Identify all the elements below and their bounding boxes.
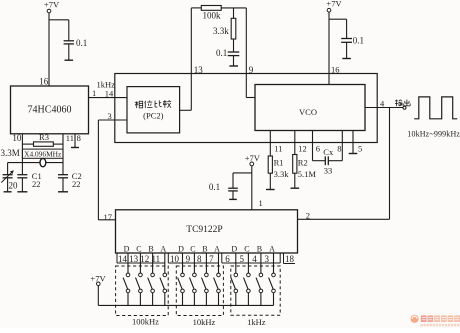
svg-text:R2: R2 bbox=[298, 157, 308, 167]
svg-text:14: 14 bbox=[118, 254, 128, 264]
svg-text:TC9122P: TC9122P bbox=[186, 225, 222, 235]
svg-text:6: 6 bbox=[316, 143, 320, 153]
svg-text:5: 5 bbox=[240, 254, 245, 264]
svg-text:0.1: 0.1 bbox=[209, 182, 220, 192]
svg-text:13: 13 bbox=[129, 254, 139, 264]
svg-text:10kHz~999kHz: 10kHz~999kHz bbox=[407, 129, 460, 138]
svg-text:22: 22 bbox=[72, 179, 81, 189]
svg-text:74HC4060: 74HC4060 bbox=[28, 105, 72, 116]
svg-text:9: 9 bbox=[186, 254, 191, 264]
svg-text:C: C bbox=[136, 245, 141, 254]
svg-text:14: 14 bbox=[105, 88, 114, 98]
svg-text:8: 8 bbox=[197, 254, 202, 264]
svg-text:11: 11 bbox=[66, 133, 74, 143]
svg-text:(PC2): (PC2) bbox=[143, 111, 163, 121]
svg-text:4: 4 bbox=[252, 254, 257, 264]
svg-text:6: 6 bbox=[225, 254, 230, 264]
svg-text:22: 22 bbox=[32, 179, 41, 189]
svg-text:X4.096MHz: X4.096MHz bbox=[24, 150, 62, 159]
svg-text:100kHz: 100kHz bbox=[132, 317, 159, 327]
svg-text:3.3M: 3.3M bbox=[1, 148, 20, 158]
svg-text:D: D bbox=[231, 245, 237, 254]
svg-text:5.1M: 5.1M bbox=[298, 169, 317, 179]
svg-text:3: 3 bbox=[265, 254, 270, 264]
svg-text:11: 11 bbox=[274, 144, 282, 154]
svg-text:12: 12 bbox=[298, 144, 307, 154]
svg-text:0.1: 0.1 bbox=[353, 35, 364, 45]
svg-text:16: 16 bbox=[39, 77, 49, 87]
svg-text:33: 33 bbox=[324, 166, 333, 176]
svg-text:3.3k: 3.3k bbox=[213, 26, 229, 36]
svg-text:3.3k: 3.3k bbox=[274, 169, 290, 179]
svg-text:C: C bbox=[244, 245, 249, 254]
svg-text:9: 9 bbox=[249, 65, 254, 75]
svg-text:18: 18 bbox=[285, 254, 295, 264]
svg-text:12: 12 bbox=[140, 254, 149, 264]
svg-text:C: C bbox=[190, 245, 195, 254]
svg-text:B: B bbox=[148, 245, 153, 254]
svg-text:10kHz: 10kHz bbox=[193, 317, 216, 327]
svg-text:+7V: +7V bbox=[245, 153, 261, 163]
svg-text:A: A bbox=[160, 245, 166, 254]
svg-text:16: 16 bbox=[331, 64, 340, 74]
svg-text:1kHz: 1kHz bbox=[247, 317, 266, 327]
svg-text:8: 8 bbox=[77, 133, 81, 143]
svg-text:100k: 100k bbox=[203, 11, 222, 21]
svg-text:A: A bbox=[214, 245, 220, 254]
svg-text:D: D bbox=[124, 245, 130, 254]
svg-text:8: 8 bbox=[337, 143, 341, 153]
svg-text:5: 5 bbox=[358, 143, 362, 153]
svg-text:17: 17 bbox=[104, 212, 113, 222]
svg-text:13: 13 bbox=[194, 65, 204, 75]
svg-text:1: 1 bbox=[259, 198, 263, 208]
svg-text:+7V: +7V bbox=[44, 0, 60, 10]
svg-text:20: 20 bbox=[9, 181, 19, 191]
svg-text:0.1: 0.1 bbox=[216, 48, 227, 58]
svg-text:2: 2 bbox=[306, 211, 310, 221]
svg-text:B: B bbox=[202, 245, 207, 254]
svg-text:0.1: 0.1 bbox=[76, 38, 87, 48]
svg-text:Cx: Cx bbox=[323, 147, 334, 157]
svg-text:10: 10 bbox=[170, 254, 180, 264]
svg-text:7: 7 bbox=[209, 254, 214, 264]
svg-text:A: A bbox=[269, 245, 275, 254]
svg-text:3: 3 bbox=[108, 111, 112, 121]
svg-text:R3: R3 bbox=[39, 132, 49, 142]
svg-text:R1: R1 bbox=[274, 157, 284, 167]
svg-text:D: D bbox=[178, 245, 184, 254]
svg-text:VCO: VCO bbox=[299, 107, 317, 117]
svg-text:10: 10 bbox=[12, 133, 22, 143]
svg-text:B: B bbox=[257, 245, 262, 254]
svg-text:+7V: +7V bbox=[326, 0, 342, 9]
